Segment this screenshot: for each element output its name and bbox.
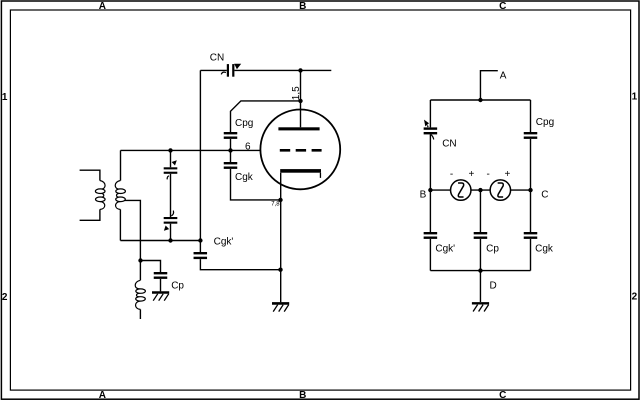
wire source1 to source2 <box>471 189 490 191</box>
node bottom/Cgk' <box>198 238 202 242</box>
svg-text:1: 1 <box>2 92 8 103</box>
wire transformer tap to coil <box>125 200 141 280</box>
wire mid down to Cp <box>479 190 481 232</box>
node grid/Cpg-Cgk <box>228 148 232 152</box>
label polarity source1 <box>450 169 511 180</box>
wire Cpg top lead <box>530 100 532 132</box>
wire bottom horizontal <box>120 240 200 242</box>
node bottom/varcap <box>168 238 172 242</box>
svg-text:7,8: 7,8 <box>271 202 280 208</box>
svg-text:Cgk': Cgk' <box>214 237 234 248</box>
capacitor Cpg (right) <box>524 132 538 139</box>
svg-text:+: + <box>504 169 510 180</box>
svg-text:Cpg: Cpg <box>235 118 253 129</box>
ground (Cp) <box>152 293 169 301</box>
node cathode/Cgk <box>278 198 282 202</box>
wire top horizontal right circuit <box>430 99 530 101</box>
svg-text:A: A <box>500 70 507 81</box>
variable capacitor C1 (stack top) <box>164 160 178 179</box>
wire CN top lead <box>429 100 431 127</box>
wire vertical to Cgk' <box>199 70 201 252</box>
op tube triode V1 <box>260 109 340 189</box>
capacitor CN (right circuit, variable) <box>424 120 438 140</box>
wire D to ground <box>479 271 481 302</box>
source I1 <box>451 180 471 200</box>
svg-text:A: A <box>99 1 106 12</box>
node cathode/Cgk' <box>278 268 282 272</box>
svg-text:Cp: Cp <box>486 243 499 254</box>
wire plate vertical <box>300 70 302 127</box>
svg-text:C: C <box>499 1 506 12</box>
svg-text:Cpg: Cpg <box>536 117 554 128</box>
node D junction <box>478 268 482 272</box>
wire top CN right segment <box>234 69 331 71</box>
svg-text:A: A <box>99 390 106 400</box>
wire Cpg bottom lead <box>530 139 532 190</box>
node dots right circuit <box>428 98 533 273</box>
wire varcap stack top <box>170 150 172 167</box>
svg-text:Cp: Cp <box>171 280 184 291</box>
svg-text:Cgk: Cgk <box>535 243 554 254</box>
node C junction <box>528 188 532 192</box>
node grid/varcap <box>168 148 172 152</box>
capacitor Cgk (left) <box>224 162 238 169</box>
svg-text:Cgk': Cgk' <box>435 243 455 254</box>
svg-text:B: B <box>299 390 306 400</box>
wire cathode down to ground <box>280 173 282 302</box>
capacitor Cgk' (right) <box>424 232 438 239</box>
svg-text:6: 6 <box>245 142 251 153</box>
wire transformer secondary top lead <box>120 150 122 180</box>
svg-text:C: C <box>541 189 548 200</box>
node tap/Cp <box>138 258 142 262</box>
capacitor Cgk (right) <box>524 232 538 239</box>
wire varcap stack bottom <box>170 224 172 241</box>
wire Cgk' bottom to cathode line <box>200 259 280 270</box>
ground (cathode) <box>272 303 289 311</box>
svg-text:B: B <box>420 189 427 200</box>
node B junction <box>428 188 432 192</box>
node top CN/plate <box>298 68 302 72</box>
svg-text:C: C <box>499 390 506 400</box>
transformer T1 secondary winding <box>115 181 125 210</box>
capacitor Cgk' (left) <box>194 252 208 259</box>
wire C down to Cgk <box>530 190 532 232</box>
wire coil bottom lead <box>139 309 141 319</box>
svg-text:-: - <box>450 169 453 180</box>
wire CN bottom lead <box>429 134 431 190</box>
wire Cgk bottom to cathode <box>231 169 281 200</box>
wire grid horizontal <box>121 149 261 151</box>
wire Cgk top <box>230 150 232 162</box>
capacitor Cpg (left) <box>224 132 238 139</box>
wire Cp bottom to ground <box>160 279 162 292</box>
ground (right circuit) <box>472 303 489 311</box>
svg-text:CN: CN <box>210 53 224 64</box>
transformer T1 primary winding <box>95 181 105 210</box>
svg-text:D: D <box>490 281 497 292</box>
wire Cgk bottom lead <box>530 239 532 271</box>
wire B down to Cgk' <box>429 190 431 232</box>
wire source2 to C <box>511 189 531 191</box>
svg-text:Cgk: Cgk <box>235 172 254 183</box>
node mid sources <box>478 188 482 192</box>
wire transformer primary bottom lead <box>80 209 100 220</box>
wire transformer primary top lead <box>80 170 100 180</box>
node A junction <box>478 98 482 102</box>
svg-text:1,5: 1,5 <box>291 86 302 100</box>
node plate/Cpg <box>298 99 302 103</box>
wire top CN left segment <box>200 69 226 71</box>
node dots left circuit <box>138 68 302 272</box>
capacitor CN (left circuit, variable) <box>221 64 241 77</box>
svg-text:1: 1 <box>632 92 638 103</box>
svg-text:CN: CN <box>442 138 456 149</box>
wire transformer secondary bottom lead <box>119 209 121 240</box>
svg-text:-: - <box>487 169 490 180</box>
wire B to source 1 <box>430 189 450 191</box>
capacitor Cp (right) <box>474 232 488 239</box>
wire Cp bottom lead <box>479 239 481 271</box>
capacitor Cp (left) <box>154 272 168 279</box>
wire Cgk' bottom lead <box>429 239 431 271</box>
wire Cp branch <box>141 261 161 273</box>
wire plate to Cpg bend <box>231 101 301 132</box>
variable capacitor C2 (stack bottom) <box>164 211 178 231</box>
wire node A lead <box>480 71 497 100</box>
wire varcap stack middle <box>170 174 172 217</box>
wire Cpg bottom <box>230 139 232 151</box>
svg-text:2: 2 <box>2 292 8 303</box>
svg-text:+: + <box>468 169 474 180</box>
inductor Lp coil <box>135 280 145 309</box>
wire bottom horizontal right circuit <box>430 270 530 272</box>
svg-text:2: 2 <box>632 292 638 303</box>
svg-text:B: B <box>299 1 306 12</box>
source I2 <box>490 180 510 200</box>
